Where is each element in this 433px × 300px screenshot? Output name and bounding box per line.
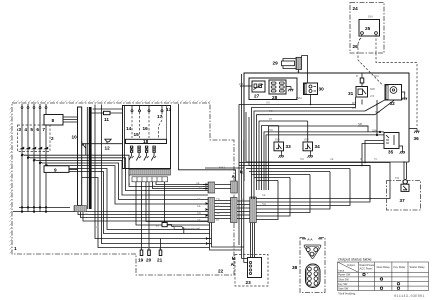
svg-text:Glow SW: Glow SW — [338, 277, 349, 281]
svg-text:SW: SW — [375, 110, 380, 114]
svg-text:MAv: MAv — [296, 96, 302, 100]
triangle connector view — [304, 245, 321, 259]
svg-text:6: 6 — [36, 127, 39, 132]
svg-text:Start SW: Start SW — [338, 287, 349, 291]
wire to 37 — [380, 162, 409, 179]
wires from bar3 right side: staircase up-turns — [256, 163, 390, 220]
trunk: wires from right module going left then down — [239, 105, 384, 246]
hatching along cab top edge — [9, 100, 210, 253]
svg-text:GN: GN — [304, 138, 309, 142]
footer pins to horizontals — [76, 212, 209, 221]
svg-text:5: 5 — [30, 127, 33, 132]
lamps 19 20 21 — [140, 250, 162, 256]
svg-text:3: 3 — [18, 127, 21, 132]
svg-text:19: 19 — [138, 258, 144, 263]
valve symbol 12 — [105, 139, 111, 144]
fuse branch wires 3-7 — [22, 104, 46, 212]
svg-text:25: 25 — [365, 26, 371, 31]
svg-text:ACC Panel: ACC Panel — [360, 267, 373, 271]
svg-text:GE: GE — [216, 205, 220, 208]
diagonals from 31/32 wires — [356, 97, 394, 115]
thick bar bottom drop wires to lower horizontals — [69, 105, 212, 248]
svg-text:38: 38 — [292, 265, 298, 270]
switch arrows under fuses — [129, 153, 156, 161]
wires from bar3 bottom to connector 23 — [242, 223, 255, 270]
lower connector bars pair — [208, 198, 215, 223]
svg-text:22: 22 — [218, 269, 224, 274]
svg-text:GN: GN — [275, 138, 280, 142]
svg-text:GE: GE — [330, 158, 334, 161]
svg-text:37: 37 — [400, 198, 406, 203]
svg-text:GE: GE — [216, 212, 220, 215]
svg-text:011143-03E001: 011143-03E001 — [394, 295, 425, 299]
bottom bus lines of fuse group — [13, 207, 208, 213]
svg-text:1: 1 — [14, 246, 17, 251]
svg-text:7: 7 — [42, 127, 45, 132]
right module box — [244, 73, 409, 181]
svg-text:24: 24 — [353, 6, 359, 11]
svg-text:Output: Output — [347, 263, 355, 267]
branch elbows with junction dots — [21, 154, 48, 167]
stub and ground 36 — [409, 128, 417, 130]
component 32 motor — [385, 85, 402, 101]
svg-text:Rated Power: Rated Power — [360, 263, 375, 267]
svg-text:35: 35 — [388, 150, 394, 155]
switch on bus bar — [82, 141, 86, 148]
svg-text:TO: TO — [374, 158, 377, 161]
dogleg wires from fuse branches to connector — [24, 155, 208, 204]
svg-text:26: 26 — [353, 44, 359, 49]
38 connector views — [300, 238, 325, 293]
svg-text:9d: 9d — [156, 224, 160, 228]
trunk bottom horizontals going right — [239, 163, 390, 181]
svg-text:*Self Holding: *Self Holding — [338, 292, 356, 296]
switches 14-17 dashed — [132, 112, 162, 138]
ground near 28 — [286, 86, 291, 88]
connector bar 18 — [126, 139, 167, 143]
svg-text:GE: GE — [241, 212, 245, 215]
solenoid in 37 — [403, 180, 407, 184]
svg-text:Power SW: Power SW — [338, 273, 351, 277]
fuse symbols (solid arrow marks) — [19, 147, 48, 150]
svg-text:28: 28 — [272, 95, 278, 100]
svg-text:SB: SB — [358, 122, 362, 126]
svg-text:Key SW: Key SW — [338, 282, 348, 286]
footer connector under narrow bar — [74, 206, 86, 212]
tiny wire labels sprinkle — [85, 102, 377, 251]
svg-text:Input: Input — [339, 269, 345, 273]
svg-text:4: 4 — [24, 127, 27, 132]
svg-text:GE: GE — [197, 205, 201, 208]
svg-text:Glow Relay: Glow Relay — [377, 265, 391, 269]
component 27 — [252, 81, 265, 92]
svg-text:15: 15 — [134, 132, 140, 137]
svg-text:GE: GE — [197, 198, 201, 201]
fuse above 31 — [360, 78, 364, 83]
fuse 11 — [104, 111, 111, 114]
wires from block down — [136, 182, 210, 250]
third connector bar — [250, 197, 257, 223]
svg-text:RT: RT — [216, 219, 220, 222]
dashed wires from 24 down — [358, 44, 383, 86]
svg-text:34: 34 — [315, 144, 321, 149]
svg-text:SW: SW — [372, 129, 377, 133]
wires from box 8 to bus bars — [63, 117, 78, 122]
inner box 25 — [359, 20, 380, 37]
svg-text:21: 21 — [157, 258, 163, 263]
svg-text:14: 14 — [126, 126, 132, 131]
bottom corners of trunk turning right — [205, 112, 380, 200]
box 9 — [44, 166, 69, 173]
svg-text:RT: RT — [269, 118, 273, 121]
svg-text:GE: GE — [241, 198, 245, 201]
small hooks at top of fuse wires — [21, 107, 47, 109]
component 30 — [304, 83, 318, 95]
svg-text:MA1: MA1 — [219, 166, 226, 170]
svg-text:GE: GE — [269, 110, 273, 113]
svg-text:GE: GE — [262, 194, 266, 197]
svg-text:ON: ON — [368, 15, 373, 19]
upper connector pair — [208, 182, 215, 193]
component 34 — [303, 142, 313, 151]
svg-text:36: 36 — [414, 136, 420, 141]
svg-text:10: 10 — [72, 135, 78, 140]
dashed box 2 around fuses — [18, 125, 51, 152]
svg-text:27: 27 — [254, 94, 260, 99]
wires down between modules — [242, 74, 244, 250]
svg-text:Starter Relay: Starter Relay — [410, 265, 426, 269]
svg-text:GE: GE — [197, 219, 201, 222]
svg-text:A-A: A-A — [307, 238, 313, 242]
svg-text:20: 20 — [146, 258, 152, 263]
MA1 wire from box13 area to connector A — [179, 104, 236, 181]
svg-text:2: 2 — [51, 136, 54, 141]
svg-text:Key Relay: Key Relay — [394, 265, 407, 269]
box 37 dash-dot — [387, 181, 421, 211]
svg-text:2.5: 2.5 — [370, 94, 375, 98]
svg-text:30: 30 — [319, 87, 325, 92]
svg-text:11: 11 — [104, 117, 109, 122]
svg-text:12: 12 — [105, 146, 111, 151]
svg-text:SW: SW — [370, 87, 375, 91]
svg-text:16: 16 — [143, 126, 149, 131]
striped connector block under box 13 — [129, 170, 171, 176]
svg-text:8: 8 — [52, 118, 55, 123]
relay 9d small component — [162, 223, 167, 227]
svg-text:GE: GE — [196, 182, 200, 185]
connector inside 23 — [248, 258, 262, 278]
bus bar thick black — [89, 107, 92, 209]
svg-text:18: 18 — [143, 139, 149, 144]
wire from 9 to bus bar — [69, 169, 78, 171]
oval connector view — [306, 264, 321, 288]
svg-text:9: 9 — [54, 168, 57, 173]
svg-text:17: 17 — [157, 114, 163, 119]
svg-text:TO: TO — [395, 176, 400, 180]
svg-text:29: 29 — [273, 61, 279, 66]
svg-text:13: 13 — [166, 107, 172, 112]
fuses under bar 18 — [130, 146, 155, 153]
svg-text:31: 31 — [348, 91, 354, 96]
svg-text:33: 33 — [286, 144, 292, 149]
box 8 — [44, 115, 63, 126]
wires into 35 — [358, 100, 381, 136]
svg-text:23: 23 — [246, 280, 252, 285]
inner box 27/28 — [249, 78, 297, 100]
pin marks left of bars — [206, 184, 210, 245]
wires below left bar down — [210, 223, 244, 251]
svg-text:Output status table: Output status table — [338, 257, 372, 262]
box 13 instrument cluster — [123, 106, 171, 169]
component 35 — [384, 133, 399, 149]
box 24 dash-dot — [350, 3, 384, 54]
component 31 — [356, 87, 368, 98]
box 23 dashed — [235, 255, 268, 287]
bus bar 10 (narrow) — [78, 107, 82, 206]
functional oval component — [167, 225, 171, 227]
svg-text:RT: RT — [360, 158, 364, 161]
cab boundary dash-dot frame — [12, 103, 234, 275]
component 33 — [274, 142, 284, 151]
component 28 — [269, 80, 286, 94]
